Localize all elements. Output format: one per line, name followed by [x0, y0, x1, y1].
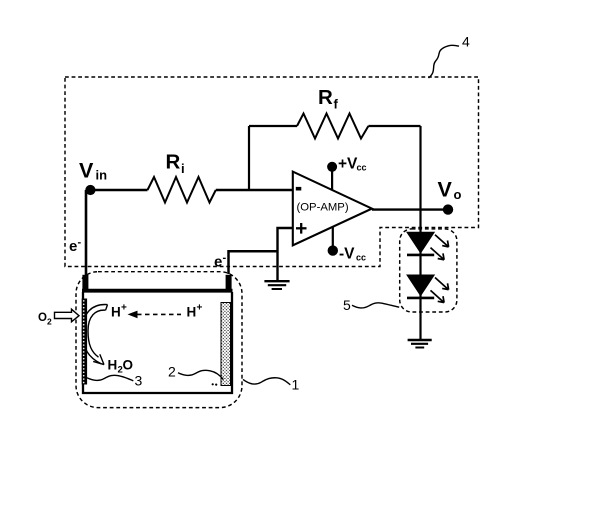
dashed enclosure box 1 (electrochemical cell)	[76, 272, 242, 408]
node Vo output dot	[443, 204, 453, 214]
svg-text:5: 5	[343, 297, 351, 313]
svg-text:H: H	[187, 305, 197, 320]
svg-text:in: in	[96, 168, 108, 183]
electrode 3 (left cathode, dotted black bar)	[82, 299, 87, 385]
svg-text:e: e	[69, 238, 77, 255]
wire to Rf	[249, 125, 297, 127]
LED D1 emission arrows	[435, 235, 449, 247]
residue dots at anode base	[212, 383, 214, 385]
leader squiggle to label 1	[243, 378, 290, 385]
-Vcc supply stub and dot	[332, 227, 334, 251]
ground (op-amp non-inverting input)	[264, 280, 289, 282]
svg-text:O: O	[38, 312, 47, 324]
op-amp minus input marker	[296, 187, 302, 191]
svg-text:cc: cc	[357, 163, 367, 173]
resistor Rf	[297, 114, 368, 139]
wire op-amp plus input	[278, 228, 293, 281]
cell body (beaker outline)	[83, 292, 232, 393]
svg-text:H: H	[108, 358, 118, 373]
svg-text:R: R	[318, 86, 333, 109]
svg-text:f: f	[334, 97, 339, 112]
svg-text:R: R	[166, 151, 181, 174]
O2 inlet hollow arrow	[55, 309, 80, 322]
svg-text:3: 3	[135, 373, 143, 389]
dashed box 5 around LEDs	[400, 229, 457, 312]
op-amp U1 triangle	[293, 172, 372, 246]
svg-text:(OP-AMP): (OP-AMP)	[297, 202, 349, 214]
dashed arrow H+ migration	[137, 313, 181, 315]
dashed enclosure box 4 (amplifier circuit)	[65, 77, 479, 267]
leader squiggle to label 3	[87, 375, 133, 381]
resistor Ri	[148, 177, 216, 203]
leader squiggle to label 4	[429, 45, 460, 78]
cathode terminal post (left)	[82, 275, 88, 293]
svg-text:+: +	[121, 303, 127, 314]
svg-text:+: +	[197, 303, 203, 314]
curved reaction arrow (H+ to H2O at cathode)	[83, 304, 108, 363]
svg-text:i: i	[181, 161, 185, 176]
anode terminal post (right)	[226, 275, 232, 293]
wire Ri to op-amp inverting input	[216, 189, 293, 191]
svg-text:V: V	[438, 178, 453, 202]
svg-text:cc: cc	[356, 253, 366, 263]
leader squiggle to label 2	[178, 370, 223, 379]
svg-text:-: -	[78, 237, 82, 249]
svg-text:V: V	[79, 158, 94, 182]
svg-text:+V: +V	[338, 156, 358, 173]
svg-text:-: -	[223, 252, 227, 264]
+Vcc supply stub and dot	[331, 167, 333, 191]
electrode 2 (right anode, stippled strip)	[221, 303, 231, 386]
svg-text:-V: -V	[339, 246, 355, 263]
LED D2 emission arrows	[435, 278, 449, 290]
svg-text:2: 2	[47, 317, 52, 327]
LED D2 (bottom)	[407, 275, 434, 296]
wire output vertical branch down to LED ground	[419, 126, 421, 340]
svg-text:H: H	[111, 305, 121, 320]
node Vin (input node dot)	[85, 185, 95, 195]
svg-text:4: 4	[462, 34, 470, 50]
wire op-amp output to Vo	[372, 208, 448, 210]
svg-text:2: 2	[168, 364, 176, 380]
wire feedback junction riser	[248, 126, 250, 190]
wire cell right terminal to plus-input net	[229, 251, 278, 274]
wire Vin to Ri	[92, 189, 148, 191]
op-amp plus input marker	[296, 227, 307, 229]
wire Rf to output branch	[368, 125, 420, 127]
LED D1 (top)	[407, 232, 434, 253]
svg-text:O: O	[123, 358, 134, 373]
svg-text:e: e	[214, 254, 222, 271]
wire Vin down to cell cathode terminal	[85, 190, 88, 276]
svg-text:o: o	[454, 187, 462, 202]
ground (below LEDs)	[408, 339, 432, 341]
cell top cover bar	[82, 289, 233, 293]
svg-text:1: 1	[292, 377, 300, 393]
leader squiggle to label 5	[352, 303, 399, 308]
